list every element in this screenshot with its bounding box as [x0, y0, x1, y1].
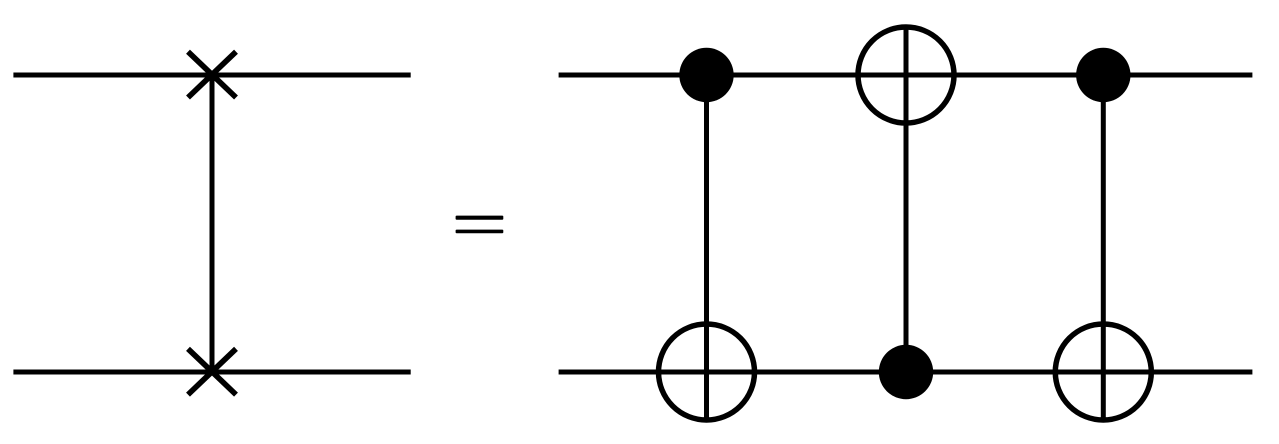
SWAP cross X2 (bottom qubit) [188, 349, 236, 395]
wire q0 (right circuit, top) [559, 73, 1253, 78]
CNOT2 target circle (q0) [858, 27, 954, 123]
wire q1 (right circuit, bottom) [559, 370, 1253, 375]
wire q1 (left circuit, bottom) [13, 370, 410, 375]
CNOT2 control dot (q1) [879, 345, 933, 399]
wire SWAP vertical connector [210, 75, 215, 372]
SWAP cross X1 (top qubit) [188, 52, 236, 98]
equals sign [456, 216, 504, 234]
wire CNOT2 vertical connector [904, 27, 909, 373]
wire q0 (left circuit, top) [13, 73, 410, 78]
CNOT3 target circle (q1) [1055, 324, 1151, 420]
CNOT1 control dot (q0) [679, 48, 733, 102]
wire CNOT3 vertical connector [1101, 75, 1106, 421]
wire CNOT1 vertical connector [704, 75, 709, 421]
CNOT3 control dot (q0) [1076, 48, 1130, 102]
CNOT1 target circle (q1) [659, 324, 755, 420]
